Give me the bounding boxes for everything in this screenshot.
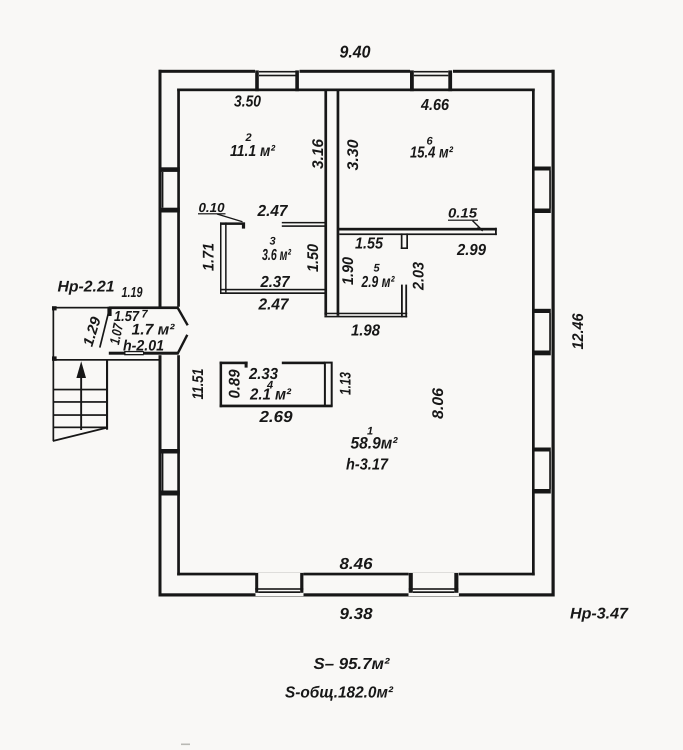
svg-text:2.47: 2.47 bbox=[258, 297, 290, 314]
vestibule upper diagonal bbox=[178, 308, 188, 326]
inner wall right bbox=[532, 89, 535, 576]
svg-text:3: 3 bbox=[269, 236, 275, 248]
svg-text:5: 5 bbox=[373, 263, 380, 275]
svg-text:S– 95.7м²: S– 95.7м² bbox=[314, 656, 391, 673]
inner wall bottom bbox=[177, 573, 535, 576]
porch left line bbox=[53, 307, 55, 361]
porch corner tick top bbox=[52, 306, 57, 310]
window left WB bbox=[159, 449, 180, 496]
svg-text:2.37: 2.37 bbox=[260, 274, 291, 291]
vestibule threshold bottom line bbox=[124, 354, 144, 355]
svg-text:8.46: 8.46 bbox=[340, 556, 373, 573]
stair step 1 bbox=[53, 389, 108, 391]
window top W1 bbox=[255, 70, 300, 92]
window top W2 bbox=[410, 70, 453, 92]
faint scan speck bbox=[181, 744, 190, 746]
window right W1 bbox=[532, 167, 551, 214]
porch top line bbox=[53, 307, 110, 309]
leader 0.10 underline bbox=[198, 213, 226, 214]
outer wall right bbox=[552, 70, 555, 597]
inner wall top bbox=[177, 89, 535, 92]
svg-text:11.51: 11.51 bbox=[190, 369, 207, 400]
inner wall left bbox=[177, 89, 180, 576]
svg-text:7: 7 bbox=[141, 309, 148, 321]
vestibule threshold top line bbox=[124, 351, 144, 352]
leader 0.15 barb bbox=[477, 228, 483, 231]
vestibule lower diagonal bbox=[178, 335, 188, 354]
vestibule door jamb bbox=[107, 307, 111, 316]
window bottom W2 bbox=[409, 573, 459, 596]
svg-text:4.66: 4.66 bbox=[420, 97, 449, 114]
svg-text:1.13: 1.13 bbox=[338, 372, 355, 395]
closet top door jamb tick bbox=[245, 362, 248, 368]
svg-text:1.98: 1.98 bbox=[351, 323, 380, 340]
outer wall bottom bbox=[159, 593, 555, 596]
outer wall left bbox=[159, 70, 162, 597]
svg-text:3.6 м²: 3.6 м² bbox=[262, 247, 291, 264]
svg-text:Нр-2.21: Нр-2.21 bbox=[58, 279, 115, 296]
svg-text:2.33: 2.33 bbox=[248, 366, 278, 383]
svg-text:12.46: 12.46 bbox=[570, 313, 587, 349]
stair arrow head bbox=[76, 361, 86, 378]
closet top wall left segment bbox=[220, 362, 248, 365]
room3 bottom wall outer line bbox=[220, 292, 327, 294]
stair step 3 bbox=[53, 414, 108, 416]
svg-text:Нр-3.47: Нр-3.47 bbox=[570, 606, 629, 623]
svg-text:3.50: 3.50 bbox=[234, 94, 261, 111]
closet top wall right segment bbox=[282, 362, 325, 365]
svg-text:15.4 м²: 15.4 м² bbox=[410, 145, 454, 162]
leader 0.10 line bbox=[217, 214, 243, 222]
stairs right edge bbox=[106, 359, 108, 430]
window bottom W1 bbox=[255, 573, 303, 596]
entrance opening in left wall bbox=[158, 307, 181, 356]
vestibule door leaf bbox=[100, 312, 109, 348]
svg-text:0.89: 0.89 bbox=[227, 369, 244, 398]
svg-text:2.99: 2.99 bbox=[456, 242, 486, 259]
svg-text:8.06: 8.06 bbox=[430, 388, 447, 419]
room3 top wall right segment inner line bbox=[282, 225, 327, 227]
closet right end pier bbox=[325, 363, 332, 406]
central partition right line bbox=[337, 89, 340, 316]
vestibule top wall bbox=[109, 306, 179, 309]
svg-text:9.38: 9.38 bbox=[340, 606, 373, 623]
window left WA bbox=[159, 167, 180, 212]
svg-text:1.71: 1.71 bbox=[201, 243, 218, 271]
0.15 wall end cap bbox=[495, 228, 497, 235]
svg-text:0.15: 0.15 bbox=[448, 206, 478, 221]
svg-text:9.40: 9.40 bbox=[340, 43, 372, 62]
svg-text:1.50: 1.50 bbox=[305, 244, 322, 272]
vestibule bottom wall left segment bbox=[109, 352, 126, 355]
stair cut diagonal bbox=[53, 428, 108, 442]
stairs left edge bbox=[53, 361, 55, 442]
outer wall top bbox=[159, 70, 555, 73]
room5 bottom wall upper line bbox=[324, 313, 407, 315]
svg-text:1.7 м²: 1.7 м² bbox=[132, 322, 176, 339]
closet bottom wall bbox=[220, 405, 333, 408]
leader 0.15 line bbox=[473, 221, 483, 231]
closet left wall bbox=[220, 362, 223, 408]
svg-text:1.55: 1.55 bbox=[355, 236, 384, 253]
svg-text:h-2.01: h-2.01 bbox=[123, 338, 164, 355]
svg-text:2.69: 2.69 bbox=[258, 409, 292, 426]
porch corner tick bottom bbox=[52, 356, 57, 360]
svg-text:2.47: 2.47 bbox=[257, 203, 289, 220]
room5 bottom wall lower line bbox=[324, 316, 407, 318]
central partition left line bbox=[324, 89, 327, 316]
room3 top door jamb tick bbox=[242, 222, 245, 228]
stair arrow stem bbox=[80, 378, 82, 431]
svg-text:S-общ.182.0м²: S-общ.182.0м² bbox=[285, 685, 394, 702]
window right W2 bbox=[532, 309, 551, 356]
room5 top door jamb stub bbox=[401, 233, 408, 249]
leader 0.15 underline bbox=[448, 220, 478, 221]
svg-text:11.1 м²: 11.1 м² bbox=[230, 143, 276, 160]
svg-text:h-3.17: h-3.17 bbox=[346, 457, 389, 474]
svg-text:3.16: 3.16 bbox=[310, 139, 327, 169]
svg-text:2.03: 2.03 bbox=[411, 262, 428, 291]
svg-text:2.9 м²: 2.9 м² bbox=[361, 274, 395, 291]
vestibule bottom wall right segment bbox=[143, 352, 179, 355]
svg-text:1.19: 1.19 bbox=[122, 285, 143, 301]
window right W3 bbox=[532, 448, 551, 494]
porch bottom line bbox=[53, 359, 162, 361]
0.15 wall bottom line bbox=[339, 233, 497, 235]
room3 top wall left segment bbox=[220, 222, 245, 225]
svg-text:58.9м²: 58.9м² bbox=[351, 435, 398, 453]
svg-text:0.10: 0.10 bbox=[199, 200, 226, 215]
svg-text:3.30: 3.30 bbox=[345, 139, 362, 170]
stair step 2 bbox=[53, 401, 108, 403]
room3 left wall outer line bbox=[220, 222, 222, 294]
0.15 wall top line bbox=[337, 228, 497, 231]
room3 bottom wall inner line bbox=[220, 289, 327, 291]
svg-text:2.1 м²: 2.1 м² bbox=[249, 387, 292, 404]
svg-text:1.90: 1.90 bbox=[340, 257, 357, 285]
room5 right lower wall bbox=[401, 285, 407, 318]
room3 top wall right segment outer line bbox=[282, 222, 327, 224]
stair step 4 bbox=[53, 427, 108, 429]
room3 left wall inner line bbox=[225, 222, 227, 292]
